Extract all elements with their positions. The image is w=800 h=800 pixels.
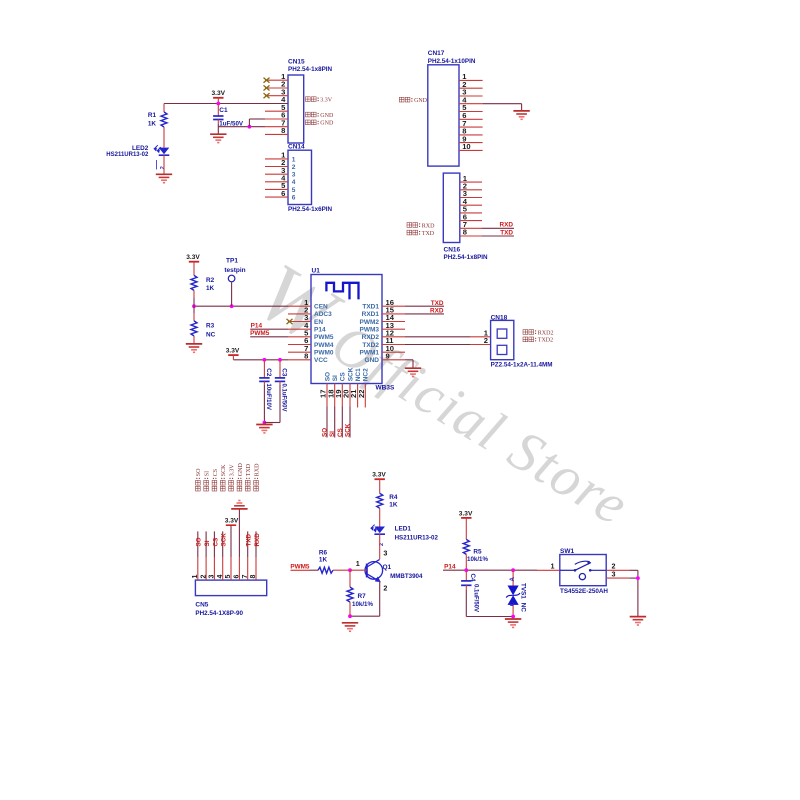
svg-text:SI: SI xyxy=(332,375,339,381)
svg-text:4: 4 xyxy=(217,575,224,579)
svg-text:10uF/10V: 10uF/10V xyxy=(265,384,271,410)
svg-text:2: 2 xyxy=(200,575,207,579)
svg-text:NC1: NC1 xyxy=(355,368,362,381)
svg-text:CN5: CN5 xyxy=(195,602,208,609)
svg-text:SO: SO xyxy=(196,537,203,546)
svg-text:8: 8 xyxy=(250,575,257,579)
svg-text:PH2.54-1x8PIN: PH2.54-1x8PIN xyxy=(288,66,333,73)
svg-text:U1: U1 xyxy=(312,268,321,275)
svg-text:RXD2: RXD2 xyxy=(362,334,380,341)
svg-text:Q1: Q1 xyxy=(383,564,392,571)
svg-text:PWM5: PWM5 xyxy=(314,334,334,341)
svg-text:SO: SO xyxy=(324,372,331,381)
svg-text:TXD: TXD xyxy=(431,300,444,307)
svg-text:3.3V: 3.3V xyxy=(186,254,200,261)
svg-text:8: 8 xyxy=(304,352,308,361)
svg-text:1K: 1K xyxy=(319,557,328,564)
svg-text:RXD2: RXD2 xyxy=(538,330,554,336)
svg-text:PWM3: PWM3 xyxy=(360,327,380,334)
svg-text:8: 8 xyxy=(281,126,285,135)
svg-text:6: 6 xyxy=(292,195,296,202)
svg-text:C4: C4 xyxy=(469,574,476,583)
svg-text:RXD: RXD xyxy=(254,533,261,547)
svg-text:SO: SO xyxy=(196,468,202,476)
svg-text:PH2.54-1x6PIN: PH2.54-1x6PIN xyxy=(288,206,333,213)
svg-text:7: 7 xyxy=(242,575,249,579)
svg-text:GND: GND xyxy=(365,357,380,364)
svg-text:TP1: TP1 xyxy=(226,257,238,264)
svg-text:TXD2: TXD2 xyxy=(362,342,379,349)
svg-text:SCK: SCK xyxy=(345,423,352,437)
svg-text:TXD: TXD xyxy=(500,229,513,236)
svg-text:R6: R6 xyxy=(319,549,328,556)
svg-text:CS: CS xyxy=(337,428,344,437)
svg-text:CN16: CN16 xyxy=(444,247,461,254)
svg-text:6: 6 xyxy=(234,575,241,579)
svg-text:C1: C1 xyxy=(219,107,228,114)
svg-text:9: 9 xyxy=(386,352,390,361)
svg-text:0.1uF/50V: 0.1uF/50V xyxy=(280,384,286,412)
svg-text:C: C xyxy=(509,601,516,606)
svg-text:SI: SI xyxy=(329,431,336,437)
svg-text:1K: 1K xyxy=(389,501,398,508)
svg-text:3.3V: 3.3V xyxy=(212,90,226,97)
svg-text:1: 1 xyxy=(192,575,199,579)
svg-text:testpin: testpin xyxy=(224,267,245,274)
svg-text:2: 2 xyxy=(160,166,166,169)
svg-text:NC2: NC2 xyxy=(363,368,370,381)
svg-text:TVS1: TVS1 xyxy=(520,583,527,599)
svg-text:TXD: TXD xyxy=(246,463,252,476)
svg-text:CN14: CN14 xyxy=(288,143,305,150)
svg-text:PH2.54-1x8PIN: PH2.54-1x8PIN xyxy=(444,254,489,261)
svg-text:CS: CS xyxy=(213,469,219,476)
svg-text:SW1: SW1 xyxy=(560,548,574,555)
svg-text:RXD: RXD xyxy=(254,463,260,476)
svg-text:C3: C3 xyxy=(280,368,287,377)
svg-text:EN: EN xyxy=(314,319,323,326)
svg-text:CN17: CN17 xyxy=(428,50,445,57)
svg-text:ADC3: ADC3 xyxy=(314,311,332,318)
svg-text:RXD1: RXD1 xyxy=(362,311,380,318)
svg-text:PWM1: PWM1 xyxy=(360,350,380,357)
svg-text:1: 1 xyxy=(551,561,555,570)
svg-text:GND: GND xyxy=(320,121,334,127)
svg-text:PWM4: PWM4 xyxy=(314,342,334,349)
svg-text:R3: R3 xyxy=(206,323,215,330)
svg-text:SCK: SCK xyxy=(221,533,228,547)
svg-text:10: 10 xyxy=(462,142,470,151)
svg-text:10k/1%: 10k/1% xyxy=(352,601,373,608)
svg-text:TXD1: TXD1 xyxy=(362,304,379,311)
svg-text:3.3V: 3.3V xyxy=(229,464,235,477)
svg-text:PZ2.54-1x2A-11.4MM: PZ2.54-1x2A-11.4MM xyxy=(491,361,553,368)
svg-text:3.3V: 3.3V xyxy=(459,510,473,517)
svg-text:PWM0: PWM0 xyxy=(314,350,334,357)
svg-text:5: 5 xyxy=(225,575,232,579)
svg-text:R4: R4 xyxy=(389,494,398,501)
svg-text:SI: SI xyxy=(205,471,211,476)
svg-text:PWM5: PWM5 xyxy=(290,563,310,570)
svg-text:P14: P14 xyxy=(444,563,456,570)
svg-text:0.1uF/50V: 0.1uF/50V xyxy=(472,584,478,612)
svg-text:1K: 1K xyxy=(148,120,157,127)
svg-text:GND: GND xyxy=(414,98,428,104)
svg-text:CN18: CN18 xyxy=(491,314,508,321)
svg-text:3.3V: 3.3V xyxy=(225,518,239,525)
svg-text:RXD: RXD xyxy=(422,223,435,229)
svg-text:R2: R2 xyxy=(206,277,215,284)
svg-text:1: 1 xyxy=(356,559,360,568)
svg-text:2: 2 xyxy=(292,164,296,171)
svg-text:PH2.54-1X8P-90: PH2.54-1X8P-90 xyxy=(195,610,243,617)
svg-text:SO: SO xyxy=(322,428,329,437)
svg-text:HS211UR13-02: HS211UR13-02 xyxy=(395,535,439,542)
svg-text:TXD: TXD xyxy=(246,533,253,546)
svg-text:3: 3 xyxy=(612,569,616,578)
svg-text:R7: R7 xyxy=(358,593,367,600)
svg-text:1: 1 xyxy=(292,156,296,163)
svg-text:SI: SI xyxy=(204,540,211,546)
svg-text:RXD: RXD xyxy=(500,222,514,229)
svg-text:CEN: CEN xyxy=(314,304,328,311)
svg-text:CN15: CN15 xyxy=(288,59,305,66)
svg-text:SCK: SCK xyxy=(221,464,227,476)
svg-text:2: 2 xyxy=(484,336,488,345)
svg-text:R5: R5 xyxy=(473,549,482,556)
svg-text:PWM5: PWM5 xyxy=(250,330,270,337)
svg-text:3: 3 xyxy=(209,575,216,579)
svg-text:8: 8 xyxy=(463,228,467,237)
svg-text:C2: C2 xyxy=(265,368,272,377)
svg-text:NC: NC xyxy=(520,603,527,613)
svg-text:PWM2: PWM2 xyxy=(360,319,380,326)
svg-text:WB3S: WB3S xyxy=(376,384,395,391)
svg-text:TXD2: TXD2 xyxy=(538,338,553,344)
svg-text:CS: CS xyxy=(340,372,347,382)
svg-text:GND: GND xyxy=(238,463,244,477)
svg-text:10k/1%: 10k/1% xyxy=(467,556,488,563)
svg-text:3.3V: 3.3V xyxy=(226,348,240,355)
svg-text:3.3V: 3.3V xyxy=(320,98,333,104)
svg-text:CS: CS xyxy=(212,538,219,547)
svg-text:3.3V: 3.3V xyxy=(372,472,386,479)
svg-text:P14: P14 xyxy=(251,322,263,329)
svg-text:3: 3 xyxy=(383,549,387,558)
svg-text:3: 3 xyxy=(292,172,296,179)
svg-text:RXD: RXD xyxy=(430,308,444,315)
svg-text:2: 2 xyxy=(383,584,387,593)
svg-text:LED1: LED1 xyxy=(395,526,412,533)
svg-text:VCC: VCC xyxy=(314,357,328,364)
svg-text:6: 6 xyxy=(281,189,285,198)
svg-text:22: 22 xyxy=(357,390,366,398)
svg-text:NC: NC xyxy=(206,332,216,339)
svg-text:TXD: TXD xyxy=(422,231,435,237)
svg-text:GND: GND xyxy=(320,113,334,119)
svg-text:P14: P14 xyxy=(314,327,326,334)
svg-text:MMBT3904: MMBT3904 xyxy=(390,573,423,580)
svg-text:TS4552E-250AH: TS4552E-250AH xyxy=(560,588,608,595)
svg-text:HS211UR13-02: HS211UR13-02 xyxy=(106,152,149,158)
svg-text:PH2.54-1x10PIN: PH2.54-1x10PIN xyxy=(428,58,476,65)
svg-text:R1: R1 xyxy=(148,112,157,119)
svg-text:5: 5 xyxy=(292,187,296,194)
svg-text:4: 4 xyxy=(292,179,296,186)
svg-text:1K: 1K xyxy=(206,285,215,292)
svg-text:A: A xyxy=(509,577,516,582)
svg-text:SCK: SCK xyxy=(347,367,354,381)
